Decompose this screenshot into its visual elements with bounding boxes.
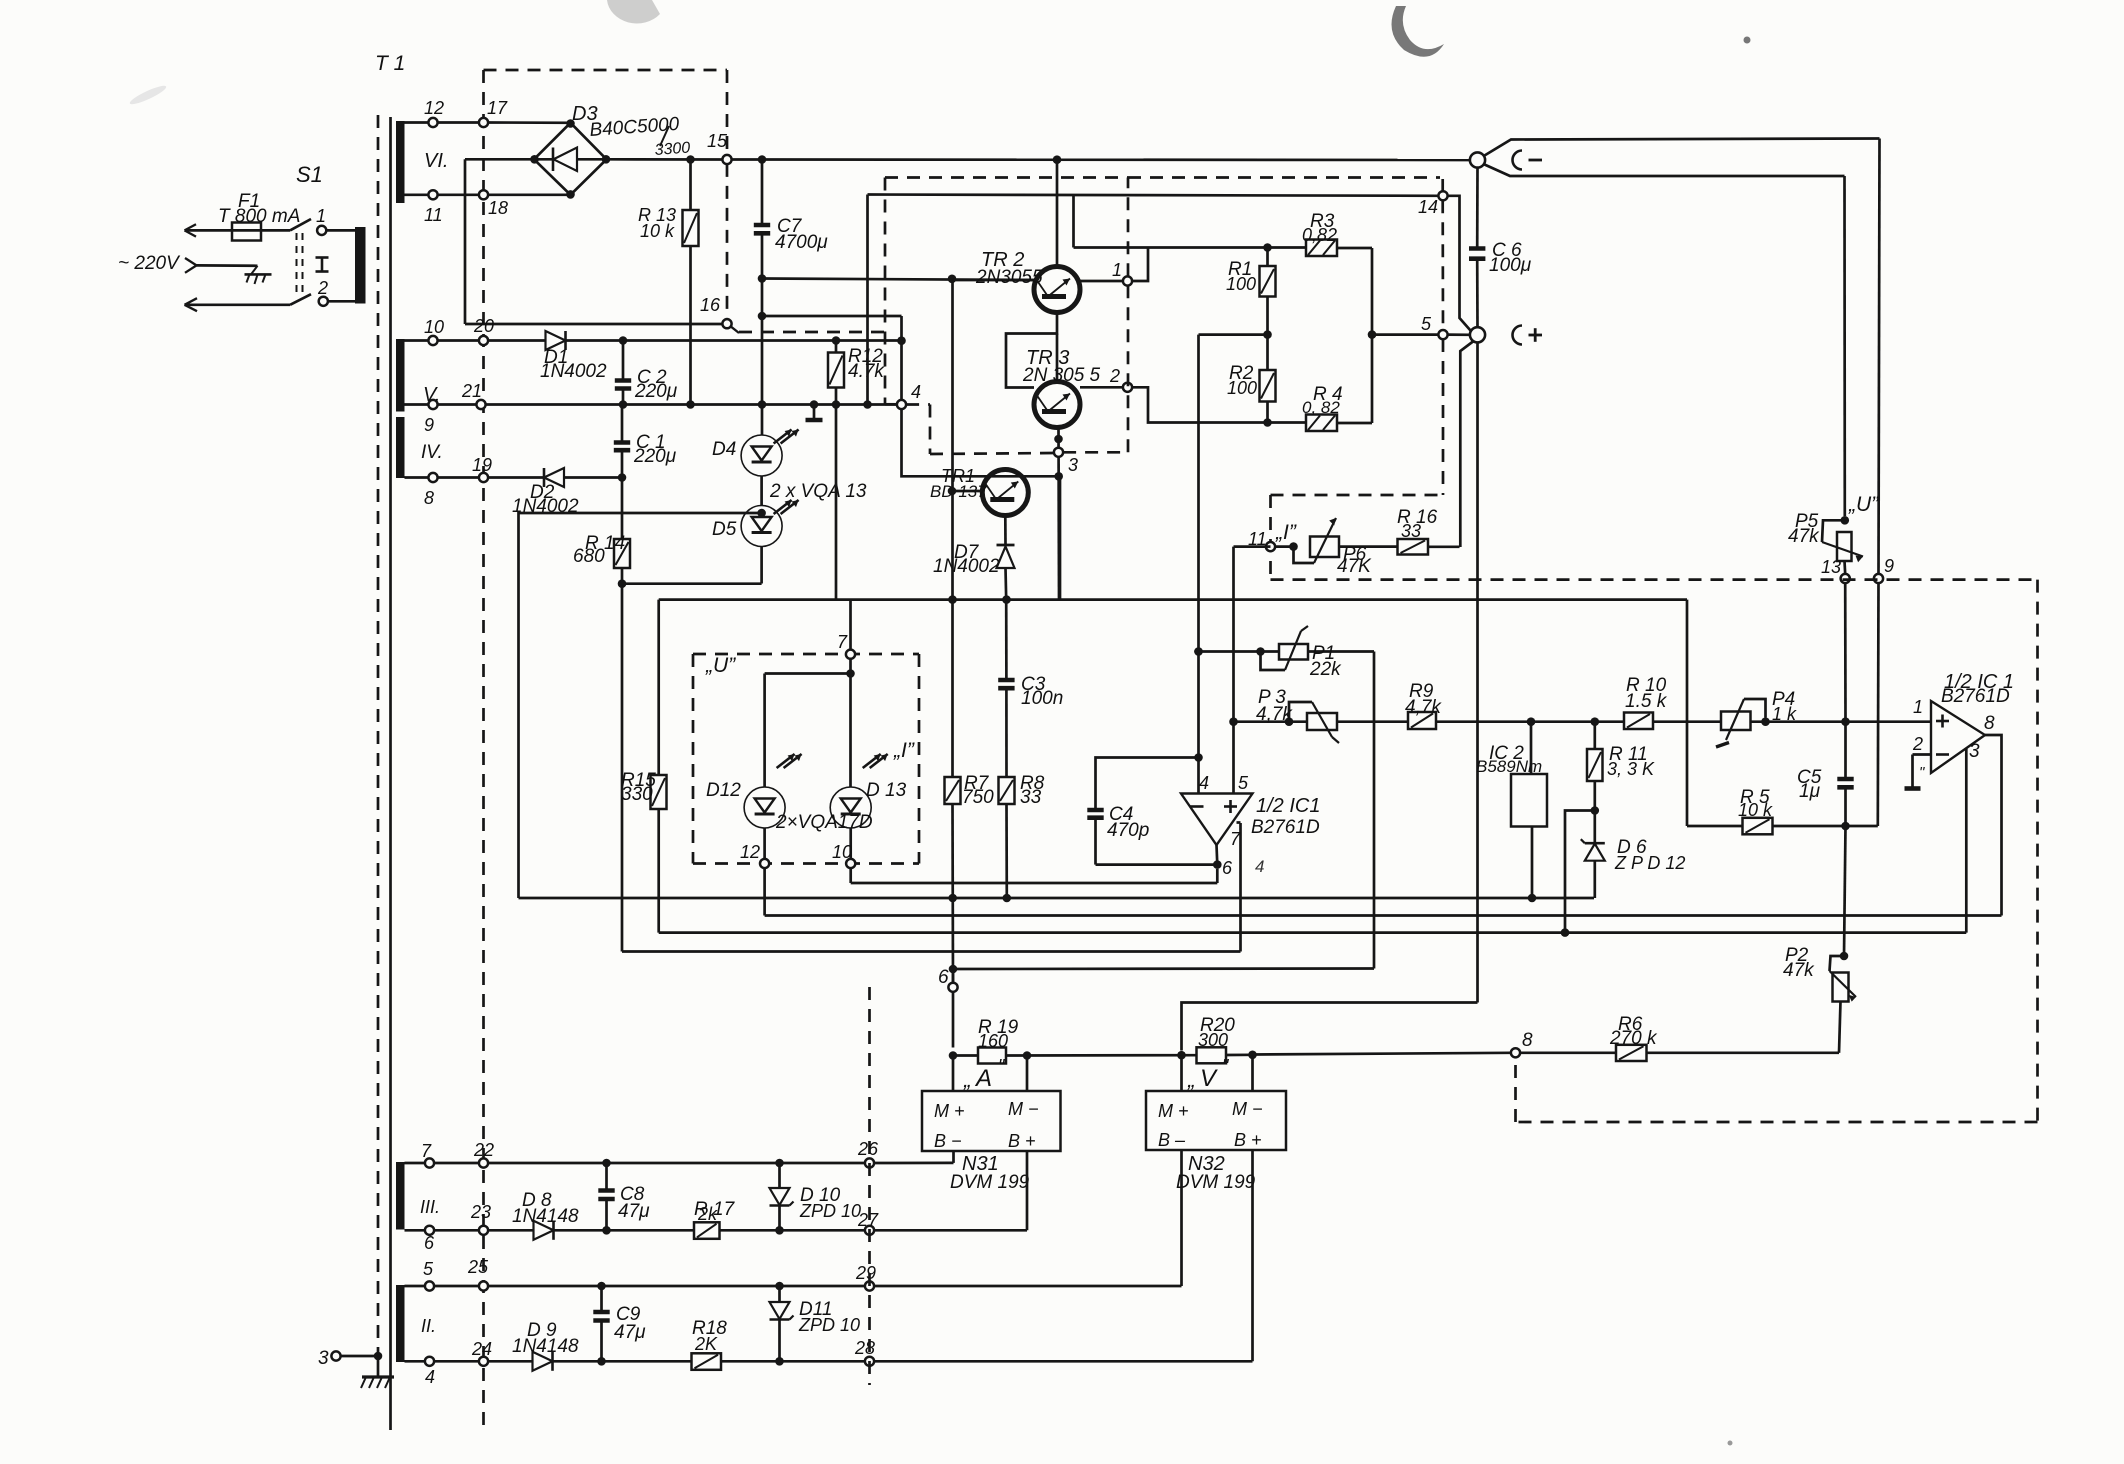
svg-text:2N3055: 2N3055 bbox=[975, 267, 1043, 288]
svg-text:1N4002: 1N4002 bbox=[933, 556, 1000, 577]
svg-text:1: 1 bbox=[316, 206, 326, 226]
svg-text:15: 15 bbox=[707, 131, 728, 151]
svg-text:23: 23 bbox=[470, 1202, 491, 1222]
svg-text:DVM 199: DVM 199 bbox=[950, 1172, 1030, 1193]
svg-text:3: 3 bbox=[1969, 741, 1980, 762]
svg-text:1N4002: 1N4002 bbox=[540, 361, 607, 382]
svg-text:M +: M + bbox=[934, 1101, 965, 1121]
svg-text:B2761D: B2761D bbox=[1251, 817, 1320, 838]
svg-text:1: 1 bbox=[1112, 260, 1122, 280]
svg-text:300: 300 bbox=[1198, 1030, 1228, 1050]
svg-text:26: 26 bbox=[857, 1139, 879, 1159]
svg-text:12: 12 bbox=[740, 842, 760, 862]
svg-text:4700μ: 4700μ bbox=[775, 232, 828, 253]
svg-text:4: 4 bbox=[1255, 857, 1264, 876]
svg-text:2: 2 bbox=[1109, 366, 1120, 386]
svg-text:M −: M − bbox=[1008, 1099, 1039, 1119]
svg-text:M −: M − bbox=[1232, 1099, 1263, 1119]
svg-text:4: 4 bbox=[911, 382, 921, 402]
svg-text:7: 7 bbox=[421, 1141, 432, 1161]
svg-text:24: 24 bbox=[471, 1339, 492, 1359]
svg-text:0, 82: 0, 82 bbox=[1302, 398, 1340, 417]
svg-text:10 k: 10 k bbox=[640, 221, 675, 241]
svg-text:III.: III. bbox=[420, 1197, 440, 1217]
svg-text:D12: D12 bbox=[706, 780, 741, 801]
svg-text:8: 8 bbox=[1522, 1030, 1533, 1051]
svg-text:D5: D5 bbox=[712, 519, 737, 540]
svg-text:2K: 2K bbox=[694, 1334, 718, 1354]
svg-text:2N 305 5: 2N 305 5 bbox=[1022, 365, 1101, 386]
svg-text:19: 19 bbox=[472, 455, 492, 475]
svg-text:47μ: 47μ bbox=[618, 1201, 650, 1222]
svg-text:2: 2 bbox=[317, 278, 328, 298]
svg-text:10 k: 10 k bbox=[1738, 800, 1773, 820]
svg-text:B −: B − bbox=[934, 1131, 962, 1151]
svg-text:8: 8 bbox=[424, 488, 434, 508]
svg-text:2 x VQA 13: 2 x VQA 13 bbox=[769, 481, 867, 502]
svg-text:13: 13 bbox=[1821, 557, 1841, 577]
svg-text:1μ: 1μ bbox=[1799, 781, 1821, 802]
svg-text:4,7k: 4,7k bbox=[1256, 704, 1293, 725]
svg-text:B2761D: B2761D bbox=[1941, 686, 2010, 707]
svg-text:II.: II. bbox=[421, 1316, 436, 1336]
svg-text:100μ: 100μ bbox=[1489, 255, 1532, 276]
svg-text:2: 2 bbox=[1912, 734, 1923, 754]
svg-text:160: 160 bbox=[978, 1031, 1008, 1051]
svg-text:5: 5 bbox=[1238, 773, 1249, 793]
svg-text:17: 17 bbox=[487, 98, 508, 118]
svg-text:33: 33 bbox=[1020, 787, 1042, 808]
svg-text:20: 20 bbox=[473, 316, 494, 336]
svg-text:5: 5 bbox=[1421, 314, 1432, 334]
svg-text:„I”: „I” bbox=[893, 739, 915, 762]
svg-text:680: 680 bbox=[573, 546, 605, 567]
svg-text:0,82: 0,82 bbox=[1302, 225, 1337, 245]
svg-text:8: 8 bbox=[1984, 713, 1995, 734]
svg-text:220μ: 220μ bbox=[634, 381, 678, 402]
svg-text:9: 9 bbox=[1884, 556, 1894, 576]
svg-text:7: 7 bbox=[1230, 829, 1241, 849]
svg-text:330: 330 bbox=[621, 784, 653, 805]
svg-text:22: 22 bbox=[473, 1140, 494, 1160]
svg-text:6: 6 bbox=[1222, 858, 1233, 878]
svg-text:Z P D 12: Z P D 12 bbox=[1614, 853, 1685, 873]
svg-text:V: V bbox=[1200, 1065, 1218, 1092]
svg-text:ZPD 10: ZPD 10 bbox=[799, 1201, 861, 1221]
svg-text:47μ: 47μ bbox=[614, 1322, 646, 1343]
svg-text:4: 4 bbox=[1199, 773, 1209, 793]
svg-text:22k: 22k bbox=[1309, 659, 1342, 680]
svg-text:7: 7 bbox=[837, 632, 848, 652]
svg-text:1.5 k: 1.5 k bbox=[1625, 691, 1668, 712]
svg-text:S1: S1 bbox=[296, 162, 323, 187]
svg-text:5: 5 bbox=[423, 1259, 434, 1279]
svg-text:47K: 47K bbox=[1337, 556, 1372, 577]
svg-text:B +: B + bbox=[1008, 1131, 1036, 1151]
svg-text:100n: 100n bbox=[1021, 688, 1063, 709]
svg-text:3: 3 bbox=[318, 1348, 329, 1369]
svg-text:100: 100 bbox=[1227, 378, 1257, 398]
svg-text:„U”: „U” bbox=[705, 654, 736, 677]
svg-text:12: 12 bbox=[424, 98, 444, 118]
svg-text:2k: 2k bbox=[697, 1204, 718, 1224]
svg-text:3, 3 K: 3, 3 K bbox=[1607, 759, 1655, 779]
svg-text:6: 6 bbox=[424, 1233, 435, 1253]
svg-text:ZPD 10: ZPD 10 bbox=[798, 1315, 860, 1335]
svg-text:BD 137: BD 137 bbox=[930, 482, 987, 501]
svg-text:M +: M + bbox=[1158, 1101, 1189, 1121]
svg-text:14: 14 bbox=[1418, 197, 1438, 217]
svg-text:9: 9 bbox=[424, 415, 434, 435]
svg-text:2×VQA17D: 2×VQA17D bbox=[775, 812, 873, 833]
svg-text:": " bbox=[1919, 764, 1925, 781]
svg-text:DVM 199: DVM 199 bbox=[1176, 1172, 1256, 1193]
svg-text:D 13: D 13 bbox=[866, 780, 907, 801]
svg-text:~ 220V: ~ 220V bbox=[118, 253, 181, 274]
svg-text:4: 4 bbox=[425, 1367, 435, 1387]
svg-text:„: „ bbox=[963, 1067, 971, 1092]
svg-text:18: 18 bbox=[488, 198, 508, 218]
svg-text:270 k: 270 k bbox=[1609, 1028, 1658, 1049]
svg-text:B +: B + bbox=[1234, 1130, 1262, 1150]
svg-text:100: 100 bbox=[1226, 274, 1256, 294]
svg-text:28: 28 bbox=[854, 1338, 875, 1358]
svg-text:„I”: „I” bbox=[1275, 521, 1297, 544]
svg-text:1N4148: 1N4148 bbox=[512, 1206, 579, 1227]
svg-text:V.: V. bbox=[423, 384, 440, 406]
svg-text:16: 16 bbox=[700, 295, 721, 315]
svg-text:B –: B – bbox=[1158, 1130, 1186, 1150]
svg-text:3: 3 bbox=[1068, 455, 1078, 475]
svg-text:220μ: 220μ bbox=[633, 446, 677, 467]
svg-text:„: „ bbox=[1187, 1067, 1195, 1092]
svg-text:1: 1 bbox=[1913, 697, 1923, 717]
svg-text:D4: D4 bbox=[712, 439, 736, 460]
svg-text:VI.: VI. bbox=[424, 150, 448, 172]
svg-text:10: 10 bbox=[424, 317, 444, 337]
svg-text:B589Nm: B589Nm bbox=[1476, 757, 1542, 776]
svg-text:470p: 470p bbox=[1107, 820, 1149, 841]
svg-text:1N4148: 1N4148 bbox=[512, 1336, 579, 1357]
svg-text:11: 11 bbox=[424, 205, 443, 225]
svg-text:25: 25 bbox=[467, 1257, 489, 1277]
svg-text:A: A bbox=[974, 1065, 992, 1092]
svg-text:„U”: „U” bbox=[1848, 493, 1879, 516]
svg-text:T 1: T 1 bbox=[375, 52, 405, 75]
svg-text:6: 6 bbox=[938, 967, 949, 988]
svg-text:21: 21 bbox=[461, 381, 482, 401]
svg-text:1/2 IC1: 1/2 IC1 bbox=[1256, 795, 1320, 817]
svg-text:27: 27 bbox=[857, 1210, 879, 1230]
svg-text:T 800 mA: T 800 mA bbox=[218, 206, 300, 227]
svg-text:3300: 3300 bbox=[654, 140, 691, 159]
svg-text:33: 33 bbox=[1401, 521, 1421, 541]
svg-text:4,7k: 4,7k bbox=[1405, 697, 1442, 718]
svg-text:47k: 47k bbox=[1783, 960, 1815, 981]
svg-text:10: 10 bbox=[832, 842, 852, 862]
svg-text:47k: 47k bbox=[1788, 526, 1820, 547]
svg-text:IV.: IV. bbox=[421, 442, 443, 463]
svg-text:750: 750 bbox=[962, 787, 994, 808]
svg-text:29: 29 bbox=[855, 1263, 876, 1283]
svg-text:1 k: 1 k bbox=[1772, 704, 1797, 724]
